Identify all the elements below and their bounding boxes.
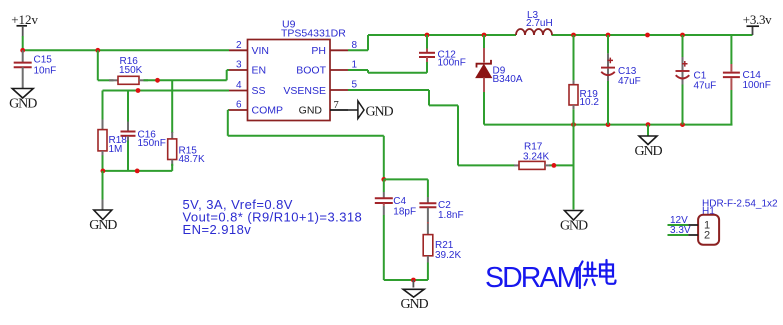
svg-text:3.3V: 3.3V bbox=[670, 225, 691, 236]
svg-text:EN=2.918v: EN=2.918v bbox=[183, 222, 252, 237]
svg-text:GND: GND bbox=[400, 297, 428, 312]
svg-text:8: 8 bbox=[352, 40, 358, 51]
svg-text:6: 6 bbox=[236, 100, 242, 111]
svg-text:EN: EN bbox=[252, 65, 267, 77]
svg-text:GND: GND bbox=[366, 105, 394, 120]
svg-text:5: 5 bbox=[352, 80, 358, 91]
svg-text:7: 7 bbox=[334, 100, 339, 111]
svg-text:150K: 150K bbox=[119, 65, 143, 76]
svg-text:4: 4 bbox=[236, 80, 242, 91]
svg-text:GND: GND bbox=[9, 97, 37, 112]
svg-text:48.7K: 48.7K bbox=[179, 154, 205, 165]
svg-text:+3.3v: +3.3v bbox=[743, 12, 772, 27]
svg-text:47uF: 47uF bbox=[694, 80, 717, 91]
svg-text:SS: SS bbox=[252, 85, 266, 97]
svg-text:1.8nF: 1.8nF bbox=[438, 210, 464, 221]
svg-text:BOOT: BOOT bbox=[296, 65, 326, 77]
svg-text:C4: C4 bbox=[393, 196, 406, 207]
svg-text:47uF: 47uF bbox=[618, 76, 641, 87]
svg-text:10.2: 10.2 bbox=[580, 97, 600, 108]
svg-text:1: 1 bbox=[352, 60, 358, 71]
svg-text:1M: 1M bbox=[109, 144, 123, 155]
svg-text:10nF: 10nF bbox=[34, 66, 57, 77]
svg-text:3: 3 bbox=[236, 60, 242, 71]
svg-text:2.7uH: 2.7uH bbox=[526, 18, 553, 29]
svg-text:3.24K: 3.24K bbox=[523, 152, 549, 163]
svg-text:100nF: 100nF bbox=[438, 58, 466, 69]
svg-text:TPS54331DR: TPS54331DR bbox=[281, 27, 346, 39]
svg-text:2: 2 bbox=[236, 40, 242, 51]
svg-text:VSENSE: VSENSE bbox=[283, 85, 326, 97]
svg-text:39.2K: 39.2K bbox=[435, 250, 461, 261]
svg-text:GND: GND bbox=[560, 219, 588, 234]
svg-text:2: 2 bbox=[704, 230, 710, 242]
svg-text:150nF: 150nF bbox=[138, 138, 166, 149]
svg-text:COMP: COMP bbox=[252, 105, 284, 117]
svg-text:C15: C15 bbox=[34, 55, 53, 66]
svg-text:GND: GND bbox=[634, 144, 662, 159]
svg-text:SDRAM: SDRAM bbox=[485, 262, 579, 294]
svg-text:GND: GND bbox=[299, 105, 323, 117]
svg-text:18pF: 18pF bbox=[393, 207, 416, 218]
svg-text:PH: PH bbox=[311, 45, 326, 57]
svg-text:VIN: VIN bbox=[252, 45, 270, 57]
svg-text:100nF: 100nF bbox=[743, 80, 771, 91]
svg-text:B340A: B340A bbox=[493, 74, 523, 85]
svg-text:GND: GND bbox=[89, 218, 117, 233]
